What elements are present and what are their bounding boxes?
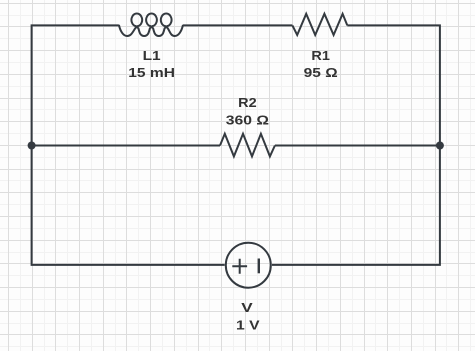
svg-text:R1: R1 [311, 48, 330, 63]
wire right vertical lower: node B to bottom-right corner [272, 146, 440, 265]
svg-text:360 Ω: 360 Ω [226, 113, 269, 128]
svg-text:L1: L1 [143, 48, 161, 63]
wire top-right: R1 to right corner [347, 25, 440, 145]
voltage source V circle [226, 243, 271, 288]
junction node B (right) [436, 142, 444, 150]
wire middle-right: R2 to node B [275, 145, 440, 147]
voltage source minus bar [258, 259, 260, 274]
wire top-middle: L1 to R1 [183, 24, 292, 26]
junction node A (left) [28, 142, 36, 150]
svg-text:R2: R2 [238, 95, 257, 110]
svg-text:15 mH: 15 mH [128, 65, 175, 80]
inductor L1 [119, 14, 183, 36]
svg-text:1 V: 1 V [236, 318, 260, 333]
voltage source plus sign [232, 259, 247, 274]
wire left vertical lower: node A to bottom-left corner [32, 146, 225, 265]
wire middle-left: node A to R2 [32, 145, 220, 147]
wire top-left: corner to L1 [32, 25, 119, 145]
resistor R2 [220, 134, 275, 157]
svg-text:95 Ω: 95 Ω [304, 65, 338, 80]
resistor R1 [292, 14, 347, 35]
svg-text:V: V [241, 300, 253, 315]
